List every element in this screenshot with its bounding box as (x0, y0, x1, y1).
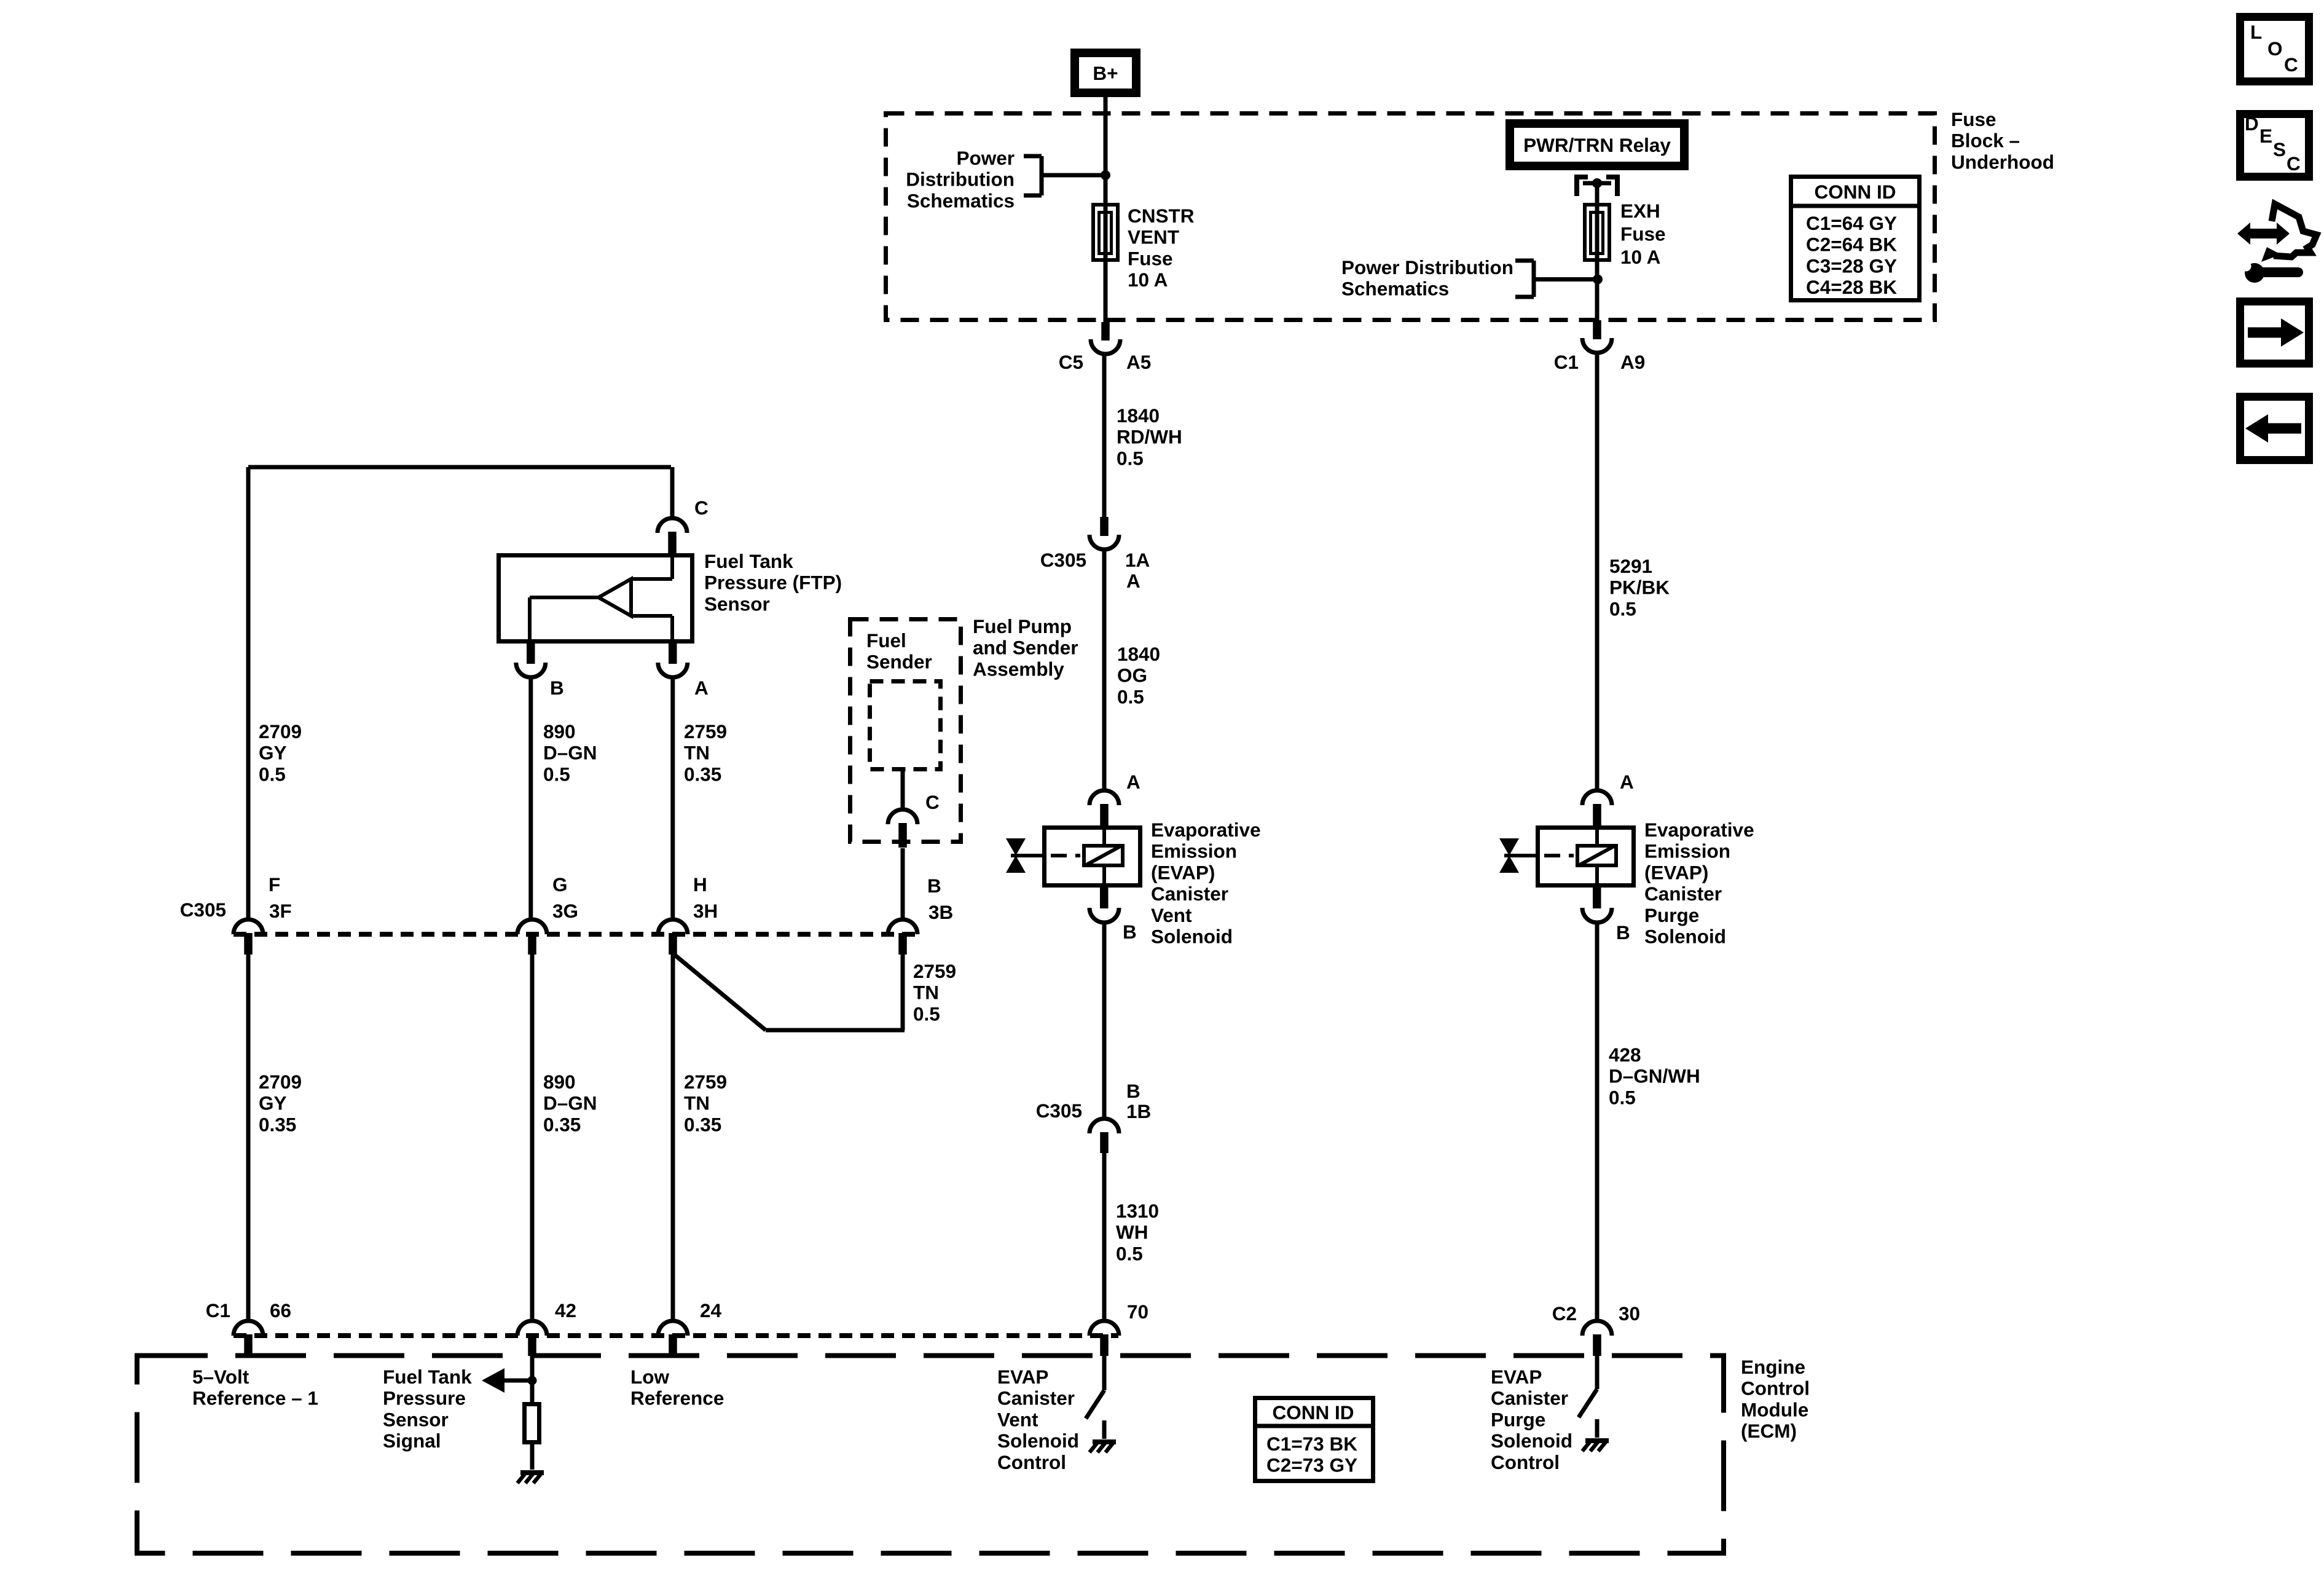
svg-text:890: 890 (543, 720, 576, 742)
svg-text:Engine: Engine (1741, 1356, 1805, 1378)
svg-text:C1=73 BK: C1=73 BK (1266, 1433, 1357, 1455)
svg-text:5291: 5291 (1609, 555, 1652, 577)
svg-text:Solenoid: Solenoid (1491, 1430, 1572, 1452)
svg-text:D–GN: D–GN (543, 742, 597, 764)
svg-text:Power Distribution: Power Distribution (1341, 256, 1513, 278)
svg-text:D–GN/WH: D–GN/WH (1609, 1065, 1700, 1087)
svg-text:Fuse: Fuse (1620, 223, 1666, 245)
svg-text:0.35: 0.35 (259, 1113, 296, 1135)
svg-text:3B: 3B (928, 901, 953, 923)
svg-text:B: B (1616, 921, 1630, 943)
svg-text:C305: C305 (180, 899, 226, 921)
svg-text:GY: GY (259, 1092, 287, 1114)
svg-text:Schematics: Schematics (1341, 278, 1449, 300)
svg-text:0.5: 0.5 (1117, 685, 1144, 707)
svg-text:and Sender: and Sender (973, 637, 1078, 659)
svg-text:Control: Control (1741, 1377, 1810, 1400)
svg-text:0.5: 0.5 (259, 763, 286, 785)
svg-text:C: C (2287, 152, 2301, 175)
svg-text:O: O (2267, 37, 2283, 60)
svg-text:B: B (550, 677, 564, 699)
svg-text:2709: 2709 (259, 1071, 302, 1093)
svg-text:B: B (1126, 1080, 1140, 1102)
svg-text:S: S (2273, 138, 2286, 160)
svg-text:(EVAP): (EVAP) (1644, 861, 1708, 883)
svg-text:A: A (694, 677, 709, 699)
svg-text:PK/BK: PK/BK (1609, 577, 1670, 599)
svg-text:EXH: EXH (1620, 200, 1660, 222)
svg-text:2759: 2759 (684, 1071, 727, 1093)
svg-text:428: 428 (1609, 1044, 1641, 1066)
svg-text:70: 70 (1127, 1301, 1148, 1323)
svg-text:C305: C305 (1036, 1100, 1082, 1122)
svg-text:Pressure: Pressure (383, 1387, 466, 1409)
svg-text:C: C (694, 497, 709, 519)
svg-text:Low: Low (630, 1366, 669, 1388)
svg-text:0.35: 0.35 (684, 763, 721, 785)
svg-text:Vent: Vent (997, 1408, 1038, 1430)
svg-text:EVAP: EVAP (997, 1366, 1048, 1388)
svg-text:Sender: Sender (866, 651, 932, 673)
svg-text:5–Volt: 5–Volt (192, 1366, 249, 1388)
svg-text:Reference – 1: Reference – 1 (192, 1387, 318, 1409)
svg-text:24: 24 (700, 1299, 722, 1321)
svg-text:2709: 2709 (259, 720, 302, 742)
svg-text:(ECM): (ECM) (1741, 1420, 1797, 1442)
svg-text:OG: OG (1117, 664, 1147, 687)
svg-text:Fuse: Fuse (1128, 247, 1173, 269)
svg-text:Control: Control (997, 1451, 1066, 1473)
svg-text:TN: TN (684, 1092, 710, 1114)
svg-text:2759: 2759 (913, 960, 956, 982)
svg-text:Pressure (FTP): Pressure (FTP) (704, 572, 842, 594)
svg-text:C1: C1 (1554, 351, 1579, 373)
svg-text:3G: 3G (552, 900, 578, 922)
svg-text:3F: 3F (269, 900, 292, 922)
svg-text:A: A (1620, 771, 1634, 793)
svg-text:1B: 1B (1126, 1100, 1151, 1122)
svg-text:Fuel: Fuel (866, 629, 906, 652)
svg-text:10 A: 10 A (1620, 246, 1660, 268)
svg-text:0.5: 0.5 (1609, 1086, 1636, 1108)
svg-text:890: 890 (543, 1071, 576, 1093)
svg-text:L: L (2250, 21, 2262, 43)
svg-text:C2=73 GY: C2=73 GY (1266, 1454, 1357, 1476)
svg-text:Fuel Tank: Fuel Tank (383, 1366, 472, 1388)
svg-text:0.35: 0.35 (543, 1113, 581, 1135)
svg-text:Emission: Emission (1151, 840, 1237, 862)
svg-text:2759: 2759 (684, 720, 727, 742)
svg-text:Solenoid: Solenoid (1151, 926, 1233, 948)
svg-text:C1: C1 (206, 1299, 230, 1321)
svg-text:42: 42 (555, 1299, 576, 1321)
svg-text:Canister: Canister (1491, 1387, 1568, 1409)
svg-text:Vent: Vent (1151, 904, 1192, 926)
svg-text:E: E (2259, 125, 2272, 147)
svg-text:Canister: Canister (997, 1387, 1075, 1409)
svg-text:C4=28 BK: C4=28 BK (1806, 276, 1897, 298)
svg-text:C2=64 BK: C2=64 BK (1806, 234, 1897, 256)
svg-text:Power: Power (956, 147, 1015, 169)
svg-text:EVAP: EVAP (1491, 1366, 1542, 1388)
svg-text:A5: A5 (1126, 351, 1151, 373)
svg-text:Sensor: Sensor (383, 1408, 449, 1430)
svg-text:Purge: Purge (1491, 1408, 1545, 1430)
svg-text:3H: 3H (693, 900, 718, 922)
svg-text:(EVAP): (EVAP) (1151, 861, 1215, 883)
svg-text:Solenoid: Solenoid (1644, 926, 1726, 948)
svg-text:1A: 1A (1125, 549, 1150, 571)
svg-text:F: F (269, 873, 280, 896)
svg-text:B+: B+ (1093, 62, 1118, 84)
svg-text:Reference: Reference (630, 1387, 724, 1409)
svg-text:1310: 1310 (1116, 1200, 1159, 1222)
svg-text:TN: TN (684, 742, 710, 764)
svg-text:C2: C2 (1552, 1302, 1577, 1325)
svg-text:D–GN: D–GN (543, 1092, 597, 1114)
svg-text:Solenoid: Solenoid (997, 1430, 1079, 1452)
svg-text:Canister: Canister (1644, 883, 1722, 905)
svg-text:CNSTR: CNSTR (1128, 205, 1195, 227)
svg-text:Evaporative: Evaporative (1151, 819, 1261, 841)
svg-text:30: 30 (1619, 1302, 1640, 1325)
svg-text:B: B (1123, 921, 1137, 943)
svg-text:Purge: Purge (1644, 904, 1699, 926)
svg-text:C1=64 GY: C1=64 GY (1806, 212, 1897, 234)
svg-text:1840: 1840 (1117, 404, 1160, 427)
svg-text:0.5: 0.5 (1117, 447, 1144, 469)
svg-text:D: D (2245, 112, 2259, 135)
svg-text:66: 66 (270, 1299, 291, 1321)
svg-text:A: A (1126, 570, 1140, 592)
svg-text:Fuel Pump: Fuel Pump (973, 615, 1072, 637)
svg-text:0.5: 0.5 (1116, 1242, 1143, 1264)
svg-text:RD/WH: RD/WH (1117, 426, 1182, 448)
svg-text:PWR/TRN Relay: PWR/TRN Relay (1523, 134, 1671, 156)
svg-text:Canister: Canister (1151, 883, 1228, 905)
svg-text:CONN ID: CONN ID (1273, 1401, 1354, 1423)
svg-text:0.5: 0.5 (1609, 597, 1636, 620)
svg-text:Fuse: Fuse (1951, 108, 1996, 130)
svg-text:TN: TN (913, 982, 939, 1004)
svg-text:10 A: 10 A (1128, 269, 1168, 291)
svg-text:0.35: 0.35 (684, 1113, 721, 1135)
svg-text:C305: C305 (1040, 549, 1086, 571)
svg-text:VENT: VENT (1128, 226, 1179, 248)
svg-text:0.5: 0.5 (543, 763, 570, 785)
svg-text:Control: Control (1491, 1451, 1560, 1473)
svg-text:Underhood: Underhood (1951, 151, 2054, 173)
svg-text:WH: WH (1116, 1221, 1148, 1243)
svg-text:Block –: Block – (1951, 130, 2020, 152)
svg-text:C3=28 GY: C3=28 GY (1806, 254, 1897, 277)
svg-text:Module: Module (1741, 1398, 1808, 1420)
svg-text:C5: C5 (1059, 351, 1083, 373)
svg-text:1840: 1840 (1117, 643, 1160, 665)
svg-text:Evaporative: Evaporative (1644, 819, 1754, 841)
svg-text:H: H (693, 873, 707, 896)
svg-text:GY: GY (259, 742, 287, 764)
svg-text:Signal: Signal (383, 1430, 441, 1452)
svg-text:G: G (552, 873, 568, 896)
svg-text:Assembly: Assembly (973, 658, 1064, 680)
svg-text:Distribution: Distribution (906, 168, 1015, 191)
svg-text:C: C (925, 791, 940, 813)
svg-text:Emission: Emission (1644, 840, 1730, 862)
svg-text:A: A (1126, 771, 1140, 793)
svg-text:B: B (927, 875, 941, 897)
svg-text:C: C (2284, 53, 2298, 76)
svg-text:Schematics: Schematics (907, 189, 1015, 211)
svg-text:0.5: 0.5 (913, 1002, 940, 1025)
svg-text:Fuel Tank: Fuel Tank (704, 550, 793, 572)
svg-text:CONN ID: CONN ID (1815, 181, 1896, 203)
svg-text:Sensor: Sensor (704, 593, 770, 615)
svg-text:A9: A9 (1620, 351, 1645, 373)
